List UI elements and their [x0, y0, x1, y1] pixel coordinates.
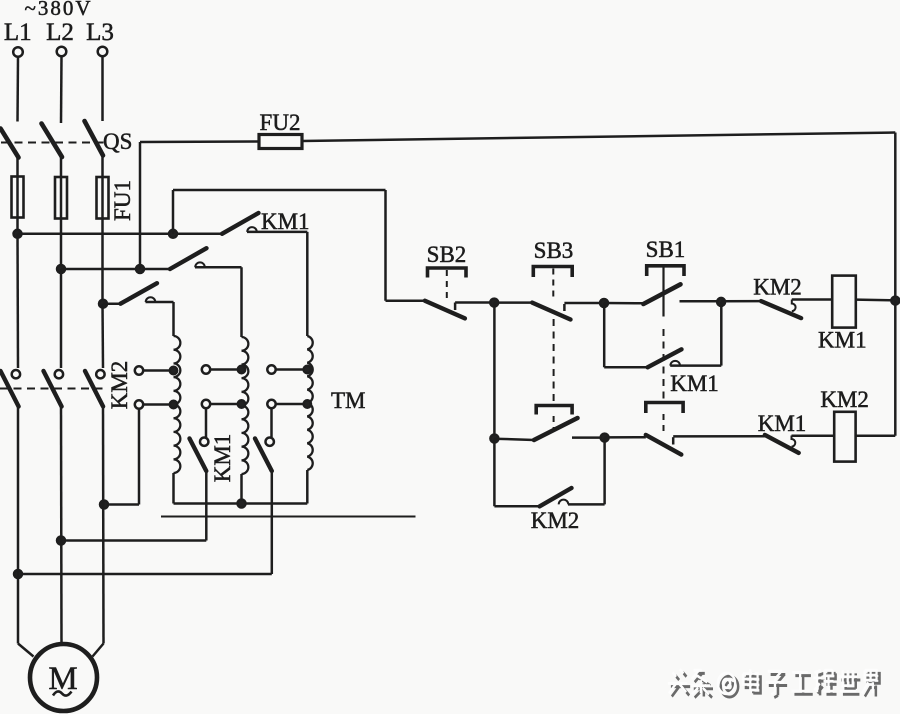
node winding3 lower tap dot — [304, 400, 311, 407]
button SB3 cap bracket — [533, 267, 572, 278]
node row1 junction dot L1 — [14, 230, 22, 238]
contactor KM1 star contact B blade — [255, 439, 272, 472]
terminal L3 — [98, 47, 108, 57]
contactor KM1 NO self hold blade — [648, 349, 682, 367]
svg-text:KM1: KM1 — [670, 371, 719, 396]
wire row1 right — [247, 231, 307, 234]
button SB1 label — [646, 237, 686, 262]
node L2 label — [46, 19, 74, 46]
fuse FU2 — [259, 135, 302, 149]
wire L1 phase drop to KM2 — [16, 234, 19, 368]
wire motor lead2 vertical — [60, 407, 63, 645]
wire winding3 tap to KM1 star contact B — [270, 408, 273, 437]
wire motor lead1 vertical — [17, 407, 20, 644]
wire star return row y540 — [61, 539, 206, 542]
button SB1 stem dashed lower — [663, 329, 665, 401]
contactor KM2 NC interlock label — [753, 275, 802, 300]
switch QS pole 3 blade — [85, 121, 104, 156]
wire winding3 lower tap — [276, 403, 308, 406]
wire L2 phase drop to KM2 — [60, 269, 63, 368]
transformer TM winding 3 coil — [307, 336, 312, 470]
wire star return row y574 — [18, 573, 272, 576]
wire KM2 self hold right — [568, 503, 605, 506]
wire motor lead3 slant — [93, 644, 104, 657]
node B dot — [600, 299, 608, 307]
wire QS3 to FU1-3 — [101, 156, 104, 304]
wire SB3 lower to node B2 — [572, 436, 605, 439]
wire winding2 bottom stub — [240, 474, 243, 504]
wire row3 drop to winding 1 — [172, 302, 175, 336]
node B2 dot — [601, 434, 609, 442]
transformer winding3 upper tap terminal — [267, 365, 275, 373]
contactor KM2 NO self hold blade — [540, 488, 572, 506]
wire self hold left — [604, 366, 647, 369]
transformer winding2 upper tap terminal — [202, 365, 210, 373]
wire row2 drop to winding 2 — [240, 267, 243, 337]
button SB1 lower right contact stub — [672, 437, 675, 444]
wire lower auxiliary bar — [161, 516, 416, 518]
wire motor lead3 vertical — [102, 407, 105, 644]
contactor KM2 NC interlock blade — [761, 301, 801, 318]
fuse FU1 pole 3 — [97, 177, 109, 219]
button SB3 lower cap bracket — [536, 406, 572, 415]
wire B2 to SB1 lower — [605, 436, 646, 439]
contactor KM2 pole 3 blade — [85, 371, 103, 407]
wire winding1 lower tap — [143, 403, 173, 406]
node motor lead1 dot — [14, 570, 22, 578]
motor tilde — [53, 691, 72, 695]
button SB3 lower NO blade — [534, 418, 578, 440]
svg-text:SB1: SB1 — [646, 237, 686, 262]
wire node C to KM2 interlock — [721, 300, 761, 303]
contactor KM1 NO self hold terminal arc — [670, 361, 680, 366]
switch QS pole 1 blade — [1, 129, 19, 158]
contactor KM1 star label rotated — [210, 434, 235, 483]
contactor KM2 label rotated — [107, 361, 132, 410]
node winding2 lower tap dot — [238, 400, 245, 407]
node A2 dot — [490, 435, 498, 443]
fuse FU1 label — [110, 180, 135, 221]
wire winding2 tap to KM1 star contact A — [205, 408, 208, 437]
svg-text:KM1: KM1 — [758, 411, 807, 436]
switch QS label — [103, 129, 132, 154]
wire SB1 lower to KM1 interlock — [673, 435, 765, 438]
button SB3 label — [534, 238, 574, 263]
switch QS pole 2 blade — [42, 124, 63, 158]
wire KM1 coil to right edge — [856, 298, 896, 301]
wire control tap riser — [172, 190, 175, 234]
svg-text:FU1: FU1 — [110, 180, 135, 221]
node right edge dot — [891, 297, 899, 305]
node winding1 lower tap dot — [170, 401, 177, 408]
wire KM2 self hold riser — [603, 438, 606, 505]
coil KM2 — [834, 412, 855, 462]
svg-text:TM: TM — [331, 388, 366, 413]
node row2 junction dot L2 — [57, 265, 65, 273]
contactor KM2 NO self hold terminal arc — [559, 500, 569, 505]
wire row3 right — [146, 301, 174, 304]
contactor KM1 star contact A blade — [190, 439, 207, 472]
wire motor lead1 slant — [18, 644, 34, 657]
wire QS2 to FU1-2 — [60, 157, 63, 269]
wire control row left — [386, 299, 425, 302]
transformer TM winding 2 coil — [242, 337, 249, 474]
wire row2 — [61, 268, 170, 271]
svg-text:KM2: KM2 — [820, 387, 869, 412]
svg-text:SB3: SB3 — [534, 238, 574, 263]
contactor KM1 star contact A terminal — [200, 438, 208, 446]
wire winding3 upper tap — [276, 368, 308, 371]
terminal L2 — [57, 47, 67, 57]
button SB3 lower stem dash — [553, 416, 555, 430]
wire row1 — [18, 233, 223, 236]
wire node B to SB1 — [604, 302, 646, 305]
wire node A drop — [493, 303, 496, 439]
svg-text:KM2: KM2 — [531, 508, 580, 533]
wire self hold riser — [720, 302, 723, 366]
button SB1 stem solid — [662, 266, 664, 317]
wire KM1 star contact A drop — [205, 471, 208, 541]
wire winding1 upper tap — [143, 369, 173, 372]
button SB3 stem dashed upper — [552, 269, 554, 300]
motor M circle — [30, 644, 97, 711]
button SB1 lower stem dash — [663, 414, 665, 433]
button SB2 label — [427, 242, 467, 267]
contactor KM2 NC interlock terminal hook — [792, 300, 796, 312]
transformer winding1 upper tap terminal — [135, 366, 143, 374]
contactor KM1 main contact 3 blade — [121, 283, 158, 304]
contactor KM1 star contact B terminal — [266, 438, 274, 446]
wire node B drop — [603, 303, 606, 367]
node winding2 upper tap dot — [238, 366, 245, 373]
wire KM2 coil to right edge — [856, 435, 896, 438]
button SB2 NC blade — [425, 301, 465, 319]
net label ~380V — [24, 0, 92, 20]
svg-text:L3: L3 — [86, 19, 114, 46]
contactor KM1 main contact 2 blade — [170, 248, 207, 269]
wire winding3 bottom stub — [306, 470, 309, 504]
transformer TM winding 1 coil — [174, 336, 181, 473]
wire FU2 right to top right corner — [302, 133, 895, 142]
wire QS1 to FU1-1 — [16, 158, 19, 235]
wire control feed horizontal y190 — [173, 189, 386, 192]
wire KM2 interlock to KM1 coil — [792, 298, 832, 301]
node A dot — [490, 299, 498, 307]
wire winding2 upper tap — [210, 368, 241, 371]
node row3 junction dot L3 — [99, 300, 107, 308]
node row1 tap dot — [169, 230, 177, 238]
motor M letter — [48, 661, 77, 697]
button SB2 cap bracket — [428, 268, 467, 278]
coil KM1 — [832, 276, 856, 328]
contactor KM2 NO self hold label — [531, 508, 580, 533]
node C dot — [717, 298, 725, 306]
svg-text:KM2: KM2 — [107, 361, 132, 410]
wire control feed drop x385 — [384, 190, 387, 301]
terminal L1 — [13, 47, 23, 57]
wire L1 drop — [16, 57, 19, 122]
button SB1 lower NC blade — [646, 435, 682, 455]
button SB2 stem dashed — [446, 270, 448, 299]
contactor KM2 pole 3 terminal — [96, 370, 104, 378]
wire KM2 self hold left — [494, 505, 539, 508]
transformer winding3 lower tap terminal — [267, 400, 275, 408]
svg-text:M: M — [48, 661, 77, 697]
node motor lead3 dot — [100, 501, 108, 509]
wire KM1 interlock to KM2 coil — [792, 434, 835, 437]
svg-text:FU2: FU2 — [260, 110, 301, 135]
svg-text:~380V: ~380V — [24, 0, 92, 20]
contactor KM1 NC interlock blade — [765, 435, 799, 453]
coil KM1 label — [818, 328, 867, 353]
wire right edge drop — [894, 133, 897, 302]
wire A2 to SB3 lower — [494, 439, 534, 440]
contactor KM1 main contact 2 terminal arc — [195, 262, 205, 267]
button SB1 NO blade — [643, 284, 680, 304]
contactor KM1 NC interlock label — [758, 411, 807, 436]
wire FU2 feed riser x140 — [139, 142, 142, 269]
button SB1 lower cap bracket — [646, 403, 683, 414]
wire winding2 lower tap — [210, 403, 241, 406]
wire SB3 to node B — [564, 302, 604, 305]
contactor KM1 NO self hold label — [670, 371, 719, 396]
wire row2 right — [195, 266, 242, 269]
node motor lead2 dot — [57, 537, 65, 545]
contactor KM1 main contact 1 label — [261, 209, 310, 234]
button SB2 right contact stub — [454, 303, 457, 311]
wire star point bar — [174, 502, 308, 505]
button SB3 right contact stub — [563, 304, 566, 311]
contactor KM1 NC interlock terminal hook — [792, 436, 796, 447]
transformer TM label — [331, 388, 366, 413]
node star point dot — [238, 500, 246, 508]
svg-text:KM2: KM2 — [753, 275, 802, 300]
svg-text:L1: L1 — [4, 19, 32, 46]
wire FU2 left — [140, 140, 259, 143]
fuse FU1 pole 1 — [12, 177, 24, 218]
svg-text:QS: QS — [103, 129, 132, 154]
svg-text:KM1: KM1 — [261, 209, 310, 234]
svg-text:KM1: KM1 — [210, 434, 235, 483]
node L3 label — [86, 19, 114, 46]
contactor KM2 pole 1 terminal — [12, 370, 20, 378]
contactor KM2 pole 2 blade — [44, 371, 62, 407]
wire L3 phase drop to KM2 — [101, 304, 104, 368]
contactor KM1 main contact 3 terminal arc — [146, 297, 156, 302]
node winding3 upper tap dot — [304, 366, 311, 373]
button SB3 stem dashed lower — [553, 319, 555, 402]
fuse FU1 pole 2 — [55, 177, 67, 219]
wire L3 drop — [101, 57, 104, 122]
svg-text:KM1: KM1 — [818, 328, 867, 353]
wire SB2 to node A — [455, 301, 494, 304]
contactor KM2 pole 1 blade — [1, 371, 19, 407]
svg-text:SB2: SB2 — [427, 242, 467, 267]
wire SB1 to node C — [680, 300, 722, 303]
node L1 label — [4, 19, 32, 46]
coil KM2 label — [820, 387, 869, 412]
wire motor lead3 link — [104, 503, 139, 506]
contactor KM1 main contact 1 blade — [222, 213, 259, 234]
button SB3 NC blade — [532, 303, 570, 320]
transformer winding2 lower tap terminal — [202, 400, 210, 408]
switch QS linkage dashed — [1, 142, 109, 144]
node winding1 upper tap dot — [170, 367, 177, 374]
wire winding1 lower tap drop — [138, 409, 141, 505]
wire L2 drop — [60, 57, 63, 124]
wire self hold right — [670, 364, 721, 367]
button SB1 cap bracket — [647, 266, 684, 276]
wire row3 — [103, 302, 121, 305]
wire row1 drop to winding 3 — [306, 232, 309, 336]
contactor KM1 main contact 1 terminal arc — [247, 227, 257, 232]
wire KM1 star contact B drop — [271, 471, 274, 574]
wire right edge drop to KM2 coil row — [894, 301, 897, 436]
wire winding1 bottom stub — [172, 473, 175, 504]
contactor KM2 pole 2 terminal — [55, 370, 63, 378]
transformer winding1 lower tap terminal — [135, 400, 143, 408]
node row2 FU2 feed dot — [136, 265, 144, 273]
wire A2 drop — [493, 439, 496, 507]
svg-text:L2: L2 — [46, 19, 74, 46]
contactor KM2 linkage dashed — [0, 388, 108, 390]
fuse FU2 label — [260, 110, 301, 135]
wire node A to SB3 — [494, 301, 532, 304]
